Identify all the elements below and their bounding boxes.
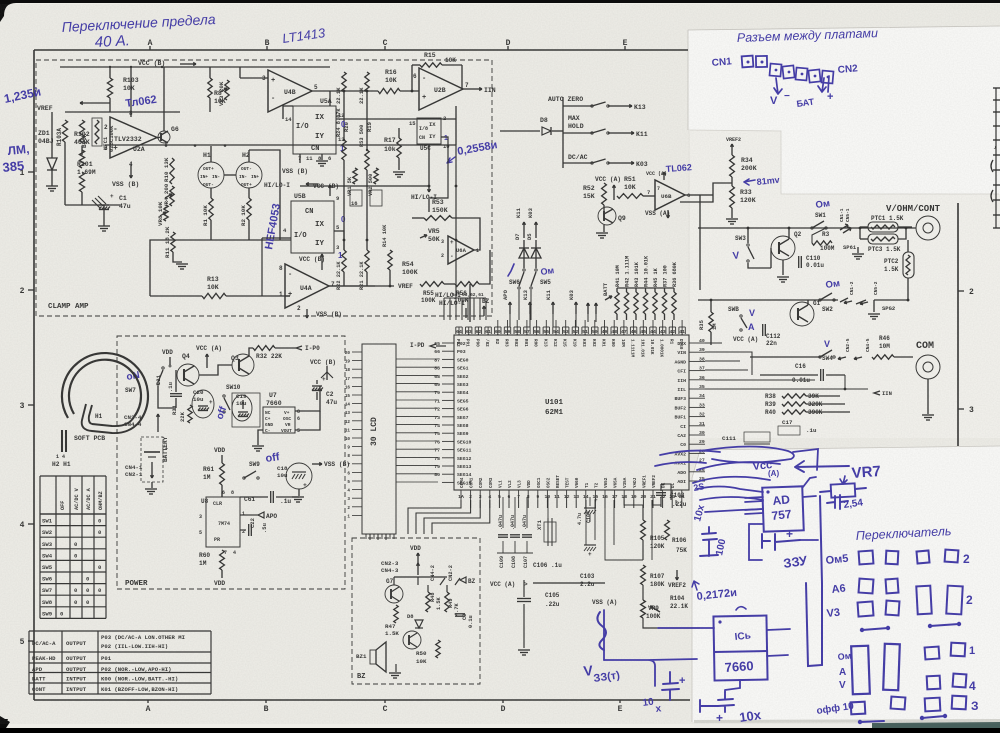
7660 left wires	[680, 560, 714, 626]
R102	[81, 146, 83, 155]
R101	[79, 172, 84, 192]
curvy wire bundle top-left of fragment	[700, 447, 794, 463]
U101 bottom pin stubs	[460, 500, 462, 508]
U8 7K74 flipflop	[206, 497, 240, 547]
power wires	[158, 398, 176, 408]
buzzer vdd rail	[394, 576, 447, 578]
LCD left pin stubs	[352, 351, 362, 353]
R107 180K	[641, 565, 646, 585]
U6B op-amp	[655, 180, 685, 210]
corner wedge	[0, 716, 10, 728]
CN2 boxes lower row	[769, 64, 781, 77]
U101 left pin rows (SEG)	[442, 342, 454, 344]
wire AD757 right side	[793, 449, 818, 497]
R33 120K	[730, 186, 735, 208]
R2 10K	[248, 188, 250, 198]
U6A	[448, 236, 474, 264]
G1 transistor	[790, 302, 814, 326]
buzzer dashed box	[352, 538, 480, 684]
U4A op-amp	[285, 264, 329, 308]
dot-line-dot connectors	[862, 628, 888, 630]
wires from pins 60..41 going up	[497, 320, 499, 327]
Q8 transistor	[403, 631, 421, 649]
U5C small block	[417, 118, 441, 144]
wires under chip	[605, 497, 643, 560]
bottom rail wires	[533, 582, 605, 584]
VR4 200	[170, 186, 174, 206]
VSS(B) arrow	[312, 463, 322, 465]
big loop wire from AD757 down-left	[749, 524, 763, 560]
vertical bus wires above U101 left	[443, 298, 445, 320]
K arrows row above U101	[509, 302, 511, 314]
PTC3	[868, 234, 898, 244]
LCD connection lines	[396, 358, 438, 360]
PTC2	[903, 252, 914, 278]
wires shunt area	[210, 146, 212, 162]
U101 body	[454, 335, 689, 490]
buzzer wires	[417, 577, 419, 585]
main hline to jack	[698, 227, 916, 229]
R24 / VR1 / R53h / VR2 column	[342, 140, 346, 160]
extra wires inside clamp box	[279, 150, 281, 240]
VR9 100K	[641, 600, 646, 618]
R11 18.2K	[171, 232, 175, 252]
wires clamp to mid	[236, 150, 280, 175]
SW4 row	[750, 356, 820, 358]
wires bottom left of 7660	[604, 659, 697, 686]
H2 shunt	[236, 162, 262, 188]
SW2 row	[698, 299, 838, 301]
extra junctions right	[747, 227, 750, 230]
row5 small squares	[927, 676, 941, 690]
B06K resistor	[79, 120, 84, 142]
U5A switch block	[293, 106, 336, 154]
Q4	[177, 364, 199, 386]
wires pins21-24 to C102	[652, 500, 661, 505]
NTC1	[92, 118, 102, 146]
R10 13K	[170, 158, 174, 184]
7660 box	[713, 616, 767, 681]
IIN arrow right	[874, 391, 880, 395]
gnd under U7 area	[258, 430, 263, 445]
R35 1M	[709, 312, 713, 332]
clamp amp dashed box	[36, 60, 492, 316]
R22 R21 22.1K lower	[342, 250, 346, 272]
op-amp U2B	[419, 68, 463, 110]
U101 right pin rows	[689, 342, 705, 344]
U101 top pin stubs below boxes	[458, 334, 460, 335]
C112	[762, 324, 764, 336]
power dashed box	[117, 336, 345, 589]
VSS(B) arrow under op-amp	[130, 164, 132, 178]
APD arrow	[258, 512, 264, 518]
VR7 potentiometer	[831, 483, 856, 497]
wire from U6B down	[699, 195, 701, 290]
VR8 10K	[164, 205, 168, 221]
R103A	[65, 111, 180, 113]
right edge sliver marks	[993, 87, 1000, 89]
wires from AD757 left to chip pins	[697, 487, 763, 493]
G6 transistor	[158, 131, 170, 143]
wires left from R33/R34 node	[680, 183, 732, 202]
sliver small arcs	[991, 160, 993, 172]
soft pcb arc	[62, 353, 148, 421]
cap left of 7660	[655, 679, 685, 704]
C103 hatched	[505, 0, 507, 1]
dashed right column link wires	[455, 106, 457, 145]
left column K-wire verticals above U101	[509, 314, 511, 327]
fragment bottom-right (blue drawing paper)	[692, 446, 1000, 722]
buzzer gnd	[395, 664, 397, 672]
CN1 boxes	[742, 56, 754, 68]
op-amp U2A TLV2332	[110, 117, 157, 158]
extra verticals below chip pins 14-19	[585, 500, 587, 545]
io table	[29, 630, 211, 632]
U5C IY wire down	[429, 137, 448, 198]
HI/LO-I under U5C	[428, 144, 430, 186]
switch matrix table	[39, 476, 41, 618]
Q2	[771, 236, 795, 260]
junction dots	[130, 66, 132, 68]
VR3 20K	[225, 80, 229, 100]
SW6/SW5 bottom wires	[518, 290, 520, 320]
R32 22K	[253, 346, 275, 351]
bottom cap + 10x	[700, 692, 734, 712]
Q3	[232, 354, 254, 376]
BZ arrow	[460, 577, 466, 583]
C110	[798, 256, 800, 268]
long wires from right pins	[705, 342, 722, 344]
extra verticals from D7/D5 to band	[523, 290, 525, 322]
H1 shunt	[198, 162, 224, 188]
fragment right (V/OHM/CONT paper)	[688, 130, 1000, 438]
sheet frame	[34, 49, 688, 51]
bat+ arrow	[818, 76, 829, 92]
R8 10K	[208, 78, 212, 98]
Q9 transistor	[598, 207, 616, 225]
R103	[109, 67, 111, 78]
2,5v cap	[827, 495, 848, 509]
D7 D5 diodes and K arrows	[523, 240, 525, 268]
left arrow to VCC	[795, 461, 849, 472]
U5B switch block	[291, 201, 334, 253]
faint seams	[688, 26, 1000, 130]
22.1K R20 R19	[342, 72, 346, 92]
U5B pin connectors	[334, 231, 344, 250]
81mv blue annotation	[744, 179, 755, 185]
labels P92 P93 SE60 BE61 column	[497, 341, 499, 343]
R1 10K	[210, 188, 212, 198]
VSS(B) under U5A	[299, 154, 301, 163]
op-amp U4B	[268, 70, 312, 112]
COM wires staircase chip to LCD	[408, 500, 461, 534]
long wire down to 7660	[800, 496, 820, 607]
LCD bottom pin stubs	[365, 534, 367, 539]
wire from clamp output right	[456, 105, 492, 107]
wire from 7660 bottom to cap	[725, 680, 740, 692]
cap 100	[700, 527, 718, 556]
D8 diode	[500, 130, 540, 132]
big cap 33v	[762, 534, 800, 550]
fragment top-right (handwriting paper)	[688, 26, 1000, 194]
extra up-arrow stubs above U101 band	[587, 303, 589, 314]
AD757 box	[762, 486, 804, 531]
V- arrow down	[774, 78, 782, 94]
R34 200K	[730, 155, 735, 177]
bottom teal scanner strip	[694, 719, 1000, 723]
lcd bottom exit wires	[366, 534, 380, 545]
BATT arrow	[605, 296, 612, 300]
clamp mid wire extension	[280, 239, 291, 241]
30 LCD block	[362, 344, 396, 534]
clamp box bus wires	[283, 106, 293, 119]
VCC(B) rail	[60, 66, 330, 68]
I-P0 arrow	[296, 346, 302, 350]
VREF arrow	[80, 102, 110, 104]
R105 120K	[641, 520, 646, 540]
bottom connectors	[922, 716, 945, 718]
R14 10K	[388, 250, 392, 270]
